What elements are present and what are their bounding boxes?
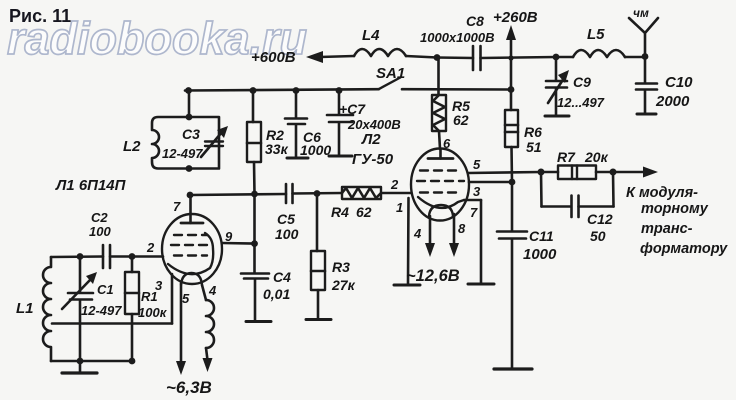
resistor R4 — [342, 187, 381, 199]
svg-text:3: 3 — [155, 278, 163, 293]
resistor R5 — [432, 58, 446, 132]
wire L3 to arrow — [203, 348, 213, 372]
inductor L3 — [206, 300, 214, 348]
svg-text:12-497: 12-497 — [162, 146, 203, 161]
svg-text:12...497: 12...497 — [557, 95, 605, 110]
node junction pin7 top — [187, 192, 194, 199]
svg-text:5: 5 — [182, 291, 190, 306]
watermark radiobooka.ru — [7, 13, 307, 65]
node junction L2 box top — [186, 114, 193, 121]
svg-text:R7: R7 — [557, 149, 576, 165]
wire R6 to screen node — [510, 147, 513, 182]
svg-text:L2: L2 — [123, 138, 141, 155]
svg-text:+С7: +С7 — [339, 101, 366, 117]
wire pin3 tube2 — [469, 181, 512, 184]
node junction C7 top — [336, 87, 343, 94]
svg-text:100: 100 — [89, 224, 111, 239]
ground bar R3 — [306, 318, 331, 321]
heater pin5 lead with arrow — [176, 283, 186, 375]
svg-text:12-497: 12-497 — [81, 303, 122, 318]
svg-text:9: 9 — [225, 229, 233, 244]
inductor L4 — [354, 49, 406, 56]
capacitor C7 electrolytic — [327, 91, 353, 156]
ground bar C9 — [545, 115, 569, 118]
svg-text:2: 2 — [390, 177, 399, 192]
wire C5 to R4 — [293, 192, 343, 195]
svg-text:7: 7 — [173, 199, 181, 214]
tube Л1 envelope — [162, 214, 222, 284]
svg-text:чм: чм — [633, 6, 649, 20]
node junction R1 bottom — [129, 358, 136, 365]
tube Л2 grid dashes — [417, 171, 464, 193]
tube Л2 anode pin 6 — [428, 149, 453, 159]
svg-text:0,01: 0,01 — [263, 286, 290, 302]
ground bar C4 — [246, 320, 271, 323]
wire pin5 tube2 — [469, 172, 542, 173]
node junction antenna — [642, 53, 649, 60]
svg-text:2000: 2000 — [655, 93, 690, 110]
figure caption Рис. 11 — [9, 6, 71, 27]
tube Л1 anode pin 7 — [181, 195, 203, 223]
ground bar C7 — [329, 155, 352, 158]
svg-text:форматору: форматору — [640, 241, 728, 257]
capacitor C10 — [636, 57, 657, 113]
svg-text:~6,3В: ~6,3В — [166, 378, 212, 397]
svg-text:С3: С3 — [182, 126, 200, 142]
node junction R6 top — [508, 86, 515, 93]
svg-text:8: 8 — [458, 221, 466, 236]
svg-text:100: 100 — [275, 226, 299, 242]
resistor R6 — [505, 110, 518, 147]
svg-text:62: 62 — [453, 112, 469, 128]
node junction C9 — [553, 54, 560, 61]
ground bar C11 — [494, 367, 532, 370]
wire L5 to antenna junction — [625, 56, 645, 59]
heater pin8 arrow tube2 — [449, 214, 459, 257]
svg-text:С12: С12 — [587, 211, 613, 227]
antenna — [629, 18, 658, 57]
capacitor C5 — [286, 184, 293, 203]
svg-text:SA1: SA1 — [376, 65, 405, 82]
wire R4 to tube2 grid — [381, 192, 411, 195]
ground bar pin7 — [468, 283, 494, 286]
svg-text:C8: C8 — [466, 13, 484, 29]
wire tank bottom — [51, 360, 132, 363]
capacitor C1 variable — [62, 257, 97, 362]
svg-text:C10: C10 — [665, 74, 693, 91]
node junction C6 top — [293, 87, 300, 94]
svg-text:R3: R3 — [332, 259, 350, 275]
wire output arrow — [613, 167, 658, 178]
node junction R1 top — [129, 253, 136, 260]
svg-text:62: 62 — [356, 204, 372, 220]
svg-text:C9: C9 — [573, 74, 591, 90]
wire pin7 cathode to ground — [464, 200, 481, 283]
ground L1 — [62, 361, 97, 373]
capacitor C4 — [241, 194, 269, 320]
wire bus to L2 box — [188, 91, 191, 118]
node +260В supply arrow — [506, 25, 516, 61]
node junction R7 right — [610, 169, 617, 176]
svg-text:100к: 100к — [138, 305, 168, 320]
svg-text:7: 7 — [470, 205, 478, 220]
node junction L2 top — [185, 87, 192, 94]
svg-text:R4: R4 — [331, 204, 349, 220]
svg-text:торному: торному — [641, 201, 709, 217]
resistor R2 — [247, 91, 261, 163]
svg-text:ГУ-50: ГУ-50 — [352, 151, 394, 168]
capacitor C11 — [497, 182, 527, 368]
wire junction to C8 — [437, 56, 473, 59]
resistor R1 — [125, 257, 139, 362]
svg-text:R6: R6 — [524, 124, 542, 140]
node junction screen pin3 — [509, 179, 516, 186]
svg-text:33к: 33к — [265, 141, 289, 157]
wire R2 bottom to grid line — [253, 162, 256, 194]
node +600В supply arrow — [306, 51, 354, 63]
svg-text:L4: L4 — [362, 27, 380, 44]
wire screen bus left section — [185, 89, 379, 90]
svg-text:1000: 1000 — [300, 142, 331, 158]
heater pin4 lead — [202, 285, 206, 300]
svg-text:транс-: транс- — [641, 221, 693, 237]
capacitor C3 variable — [201, 126, 228, 157]
svg-text:5: 5 — [473, 157, 481, 172]
tube Л1 cathode — [168, 233, 213, 274]
inductor L5 — [573, 50, 625, 57]
wire screen bus right section — [402, 88, 511, 91]
heater pin4 arrow tube2 — [425, 216, 435, 257]
inductor L1 — [43, 257, 51, 361]
inductor L2 tank box — [152, 117, 219, 169]
svg-text:С4: С4 — [273, 269, 291, 285]
node junction R3 top — [314, 190, 321, 197]
svg-text:2: 2 — [146, 240, 155, 255]
capacitor C9 variable — [546, 57, 569, 115]
svg-text:С2: С2 — [91, 210, 108, 225]
wire L1 top to C2 — [51, 255, 103, 258]
ground bar pin1 — [394, 284, 420, 287]
svg-text:К модуля-: К модуля- — [626, 185, 698, 201]
node junction R2 top — [250, 87, 257, 94]
wire pin2 tube1 — [110, 255, 163, 258]
svg-text:+600В: +600В — [251, 49, 296, 66]
wire C9 junction to L5 — [556, 56, 573, 59]
svg-text:3: 3 — [473, 184, 481, 199]
wire pin9 tube1 — [222, 242, 255, 245]
wire cathode pin3 lead — [171, 274, 174, 324]
svg-text:50: 50 — [590, 228, 606, 244]
node junction L2 box bottom — [186, 165, 193, 172]
svg-text:1000: 1000 — [523, 246, 557, 263]
svg-text:1: 1 — [396, 200, 403, 215]
wire +260 vertical to R6 — [510, 58, 513, 110]
wire grid line tube1 anode to C5 — [190, 194, 286, 195]
svg-text:С11: С11 — [529, 228, 554, 244]
svg-text:20к: 20к — [584, 149, 609, 165]
wire pin1 to ground — [407, 198, 410, 284]
svg-text:L5: L5 — [587, 26, 605, 43]
svg-text:~12,6В: ~12,6В — [406, 267, 460, 285]
svg-text:4: 4 — [413, 226, 422, 241]
svg-text:51: 51 — [526, 139, 542, 155]
ground bar C6 — [287, 157, 308, 160]
capacitor C8 — [473, 46, 481, 70]
svg-text:Л1 6П14П: Л1 6П14П — [55, 177, 127, 194]
svg-text:С5: С5 — [277, 211, 295, 227]
capacitor C6 — [285, 91, 307, 158]
node junction C4 branch top — [251, 191, 258, 198]
tube Л2 cathode — [418, 197, 464, 208]
resistor R3 — [311, 194, 325, 319]
svg-text:20х400В: 20х400В — [347, 117, 401, 132]
tube Л1 grid dashes — [171, 235, 210, 256]
tube Л1 heater — [181, 273, 202, 285]
svg-text:6: 6 — [443, 136, 451, 151]
svg-text:+260В: +260В — [493, 9, 538, 26]
svg-text:С1: С1 — [97, 282, 114, 297]
node junction R7 left — [538, 169, 545, 176]
tube Л2 envelope — [411, 149, 469, 221]
svg-text:L1: L1 — [16, 300, 34, 317]
svg-text:Л2: Л2 — [361, 131, 381, 148]
svg-text:4: 4 — [208, 283, 217, 298]
capacitor C2 — [103, 245, 110, 268]
svg-text:1000х1000В: 1000х1000В — [420, 30, 494, 45]
switch SA1 arm — [379, 78, 401, 90]
wire R5 to tube2 anode — [439, 131, 440, 149]
ground bar C10 — [637, 113, 656, 116]
node junction pin9 — [251, 240, 258, 247]
node junction C1 top — [77, 253, 84, 260]
svg-text:27к: 27к — [331, 277, 356, 293]
wire cathode tap line — [52, 322, 172, 325]
wire C8 to C9 junction — [481, 57, 557, 58]
resistor R7 — [541, 166, 613, 180]
wire L4 to C8 junction — [406, 56, 437, 58]
tube Л2 heater — [429, 205, 453, 216]
node junction C1 bottom — [77, 358, 84, 365]
capacitor C12 branch — [541, 172, 614, 217]
node junction anode feed — [434, 54, 441, 61]
